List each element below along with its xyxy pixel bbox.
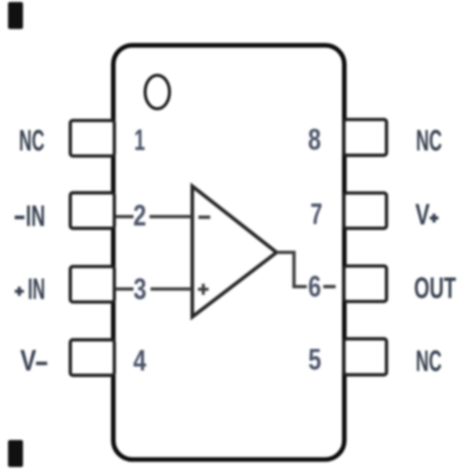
pin 1 pad	[70, 121, 114, 157]
pin 5 pad	[344, 339, 387, 375]
svg-text:7: 7	[310, 198, 322, 231]
wire pin2 stub	[116, 215, 134, 218]
wire pin3 stub	[116, 287, 134, 290]
svg-text:6: 6	[308, 270, 321, 303]
inverting input minus sign	[198, 216, 210, 219]
svg-text:4: 4	[133, 344, 146, 377]
pin 1 indicator dot	[145, 75, 169, 109]
pin 2 pad	[70, 193, 114, 229]
op-amp triangle	[192, 186, 276, 317]
page edge mark bottom-left	[8, 440, 23, 467]
svg-text:5: 5	[308, 344, 321, 377]
svg-text:NC: NC	[416, 345, 442, 378]
svg-text:1: 1	[134, 124, 145, 157]
svg-text:NC: NC	[19, 124, 45, 157]
wire pin2 to inverting input	[150, 215, 193, 218]
svg-text:NC: NC	[416, 125, 442, 158]
svg-text:2: 2	[133, 200, 146, 233]
svg-text:IN: IN	[26, 200, 46, 233]
op-amp U1 package body (8-pin DIP/SOIC outline)	[113, 45, 344, 459]
svg-text:V: V	[415, 198, 430, 231]
label V- pin4 dash	[36, 362, 47, 365]
label +IN pin3 plus	[15, 287, 24, 296]
wire pin6 dash	[323, 285, 335, 288]
label V+ pin7 plus	[430, 214, 439, 223]
page edge mark top-left	[8, 2, 23, 29]
svg-text:OUT: OUT	[414, 272, 456, 305]
wire output to pin 6 (L-shape)	[277, 252, 307, 286]
label -IN pin2 dash	[15, 216, 25, 220]
pin 4 pad	[70, 340, 114, 376]
pin 7 pad	[344, 193, 387, 228]
wire pin3 to non-inverting input	[151, 287, 193, 290]
svg-text:V: V	[20, 345, 36, 378]
non-inverting input plus sign	[198, 284, 209, 295]
pin 6 pad	[344, 266, 387, 302]
svg-text:3: 3	[134, 273, 147, 306]
svg-text:8: 8	[308, 124, 321, 157]
pin 8 pad	[344, 120, 387, 156]
pin 3 pad	[70, 267, 114, 303]
svg-text:IN: IN	[28, 273, 46, 306]
